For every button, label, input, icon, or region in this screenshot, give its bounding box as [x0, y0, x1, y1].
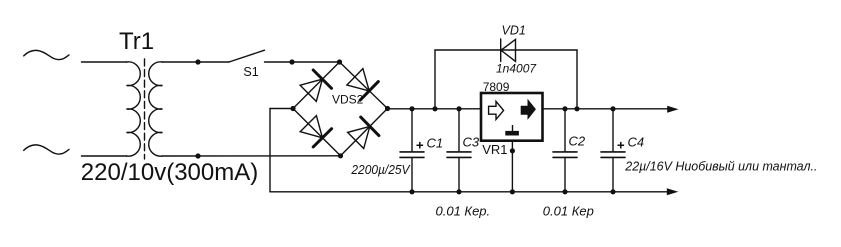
- regulator output filled arrow: [521, 100, 535, 118]
- AC source symbol bottom (~): [24, 145, 69, 154]
- plus sign C1: [417, 142, 424, 149]
- svg-text:VD1: VD1: [502, 24, 526, 38]
- node dot bridge right corner: [385, 106, 390, 111]
- capacitor C4 plates: [601, 152, 625, 158]
- node dot C4 bottom: [610, 189, 615, 194]
- capacitor C2 bottom lead: [564, 158, 566, 192]
- svg-text:C2: C2: [569, 133, 586, 148]
- svg-text:7809: 7809: [483, 80, 510, 94]
- node dot VD1 left top rail: [432, 106, 437, 111]
- node dot bridge left corner: [290, 106, 295, 111]
- node dot after switch: [289, 59, 294, 64]
- bridge VDS2 edge top-right: [340, 62, 388, 109]
- node dot C1 top: [409, 106, 414, 111]
- capacitor C3 bottom lead: [458, 158, 460, 192]
- capacitor C3 top lead: [458, 109, 460, 151]
- node dot C3 top: [456, 106, 461, 111]
- diode D-LB cathode bar: [313, 129, 331, 147]
- plus sign C4: [618, 142, 625, 149]
- transformer Tr1 core: [144, 59, 146, 159]
- wire VD1 branch right vertical: [576, 50, 578, 109]
- wire primary top lead: [82, 61, 127, 63]
- wire top rail regulator to arrow: [543, 108, 669, 110]
- op-amp-style regulator box U1 body: [481, 93, 543, 141]
- node dot secondary top: [195, 59, 200, 64]
- svg-text:C3: C3: [463, 134, 480, 149]
- diode D-LB triangle: [300, 116, 322, 138]
- output arrow bottom: [667, 188, 679, 195]
- capacitor C1 plates: [400, 152, 424, 158]
- node dot bridge bottom corner: [338, 153, 343, 158]
- node dot C1 bottom: [409, 189, 414, 194]
- node dot VD1 right top rail: [574, 106, 579, 111]
- svg-text:C4: C4: [628, 135, 645, 150]
- svg-text:C1: C1: [427, 135, 444, 150]
- capacitor C3 plates: [447, 152, 471, 158]
- svg-text:22µ/16V Ниобивый или тантал..: 22µ/16V Ниобивый или тантал..: [624, 159, 817, 174]
- wire down to bottom rail: [269, 109, 271, 192]
- diode D-BR cathode bar: [361, 117, 379, 136]
- regulator ground symbol bar: [505, 131, 519, 136]
- transformer Tr1 secondary winding: [149, 62, 163, 156]
- svg-text:VR1: VR1: [482, 142, 507, 157]
- wire secondary top lead to switch: [163, 61, 230, 63]
- diode D-TR cathode bar: [360, 82, 378, 101]
- node dot C3 bottom: [456, 189, 461, 194]
- svg-text:VDS2: VDS2: [332, 93, 364, 107]
- capacitor C1 top lead: [411, 109, 413, 151]
- output arrow top: [667, 106, 678, 113]
- diode D-BR triangle: [348, 126, 370, 148]
- svg-text:220/10v(300mA): 220/10v(300mA): [81, 159, 258, 186]
- diode VD1 cathode bar: [500, 39, 502, 62]
- regulator ground symbol stem: [512, 125, 514, 131]
- svg-text:1n4007: 1n4007: [496, 62, 537, 76]
- wire secondary bottom lead to bridge bottom corner: [163, 155, 341, 157]
- node dot C4 top: [610, 106, 615, 111]
- bridge VDS2 edge left-bottom: [293, 109, 341, 156]
- node dot VR1 ground pin: [510, 148, 515, 153]
- wire top rail bridge to regulator: [388, 108, 482, 110]
- capacitor C2 top lead: [564, 109, 566, 151]
- svg-text:0.01 Кер: 0.01 Кер: [543, 203, 594, 218]
- capacitor C4 bottom lead: [612, 158, 614, 192]
- diode D-TR triangle: [347, 69, 369, 91]
- diode VD1 triangle: [501, 39, 516, 61]
- capacitor C4 top lead: [612, 109, 614, 151]
- wire bottom rail: [270, 191, 668, 193]
- transformer Tr1 primary winding: [127, 62, 141, 156]
- regulator input open arrow: [489, 101, 504, 119]
- svg-text:S1: S1: [243, 65, 258, 79]
- wire VD1 branch top horizontal: [435, 49, 577, 51]
- bridge VDS2 edge left-top: [293, 62, 340, 109]
- svg-text:Tr1: Tr1: [119, 28, 154, 55]
- node dot C2 bottom: [562, 189, 567, 194]
- diode D-LT triangle: [300, 79, 322, 101]
- diode D-LT cathode bar: [313, 70, 331, 88]
- wire VD1 branch left vertical: [434, 50, 436, 109]
- switch S1 blade: [229, 50, 265, 62]
- node dot secondary bottom: [195, 153, 200, 158]
- node dot C2 top: [562, 106, 567, 111]
- capacitor C1 bottom lead: [411, 158, 413, 192]
- svg-text:2200µ/25V: 2200µ/25V: [350, 163, 411, 177]
- node dot VD1 apex: [500, 49, 503, 52]
- AC source symbol top (~): [24, 50, 69, 59]
- regulator ground pin wire: [511, 141, 513, 192]
- node dot bridge top corner: [337, 59, 342, 64]
- bridge VDS2 edge bottom-right: [341, 109, 388, 156]
- wire switch to bridge top corner: [265, 61, 340, 63]
- svg-text:0.01 Кер.: 0.01 Кер.: [436, 203, 491, 218]
- wire primary bottom lead: [82, 155, 127, 157]
- capacitor C2 plates: [553, 152, 577, 158]
- node dot VR1 bottom: [510, 189, 515, 194]
- wire bridge left corner to down wire: [270, 108, 293, 110]
